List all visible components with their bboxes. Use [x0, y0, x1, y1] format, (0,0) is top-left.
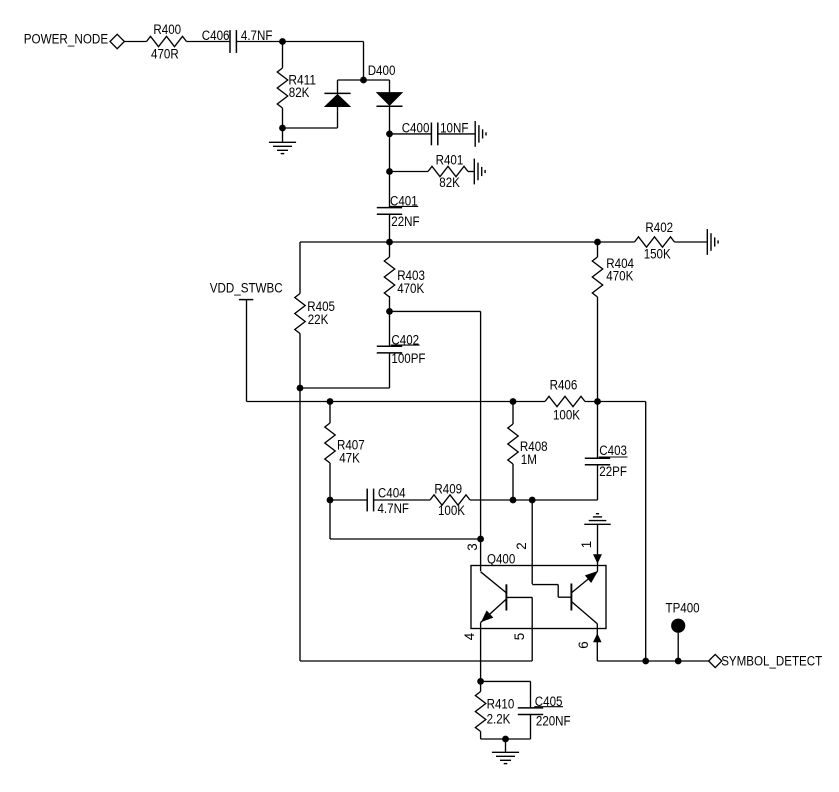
svg-text:R406: R406	[550, 378, 578, 393]
wire junction to R410	[480, 681, 482, 691]
transistor Q400 right base bar	[570, 584, 572, 611]
arrow into pin1	[594, 555, 602, 564]
svg-text:POWER_NODE: POWER_NODE	[24, 32, 109, 47]
svg-text:R401: R401	[436, 153, 464, 168]
svg-text:6: 6	[576, 641, 591, 648]
net connector SYMBOL_DETECT	[709, 654, 722, 667]
wire VDD_STWBC down to bus	[246, 300, 248, 402]
capacitor C405 220NF	[518, 694, 571, 729]
ground right of C400	[475, 121, 486, 147]
junction detect / bus corner	[642, 658, 649, 665]
wire bottom link	[481, 738, 531, 740]
junction mid rail / C401	[386, 239, 393, 246]
resistor R400 470R	[147, 22, 187, 61]
svg-text:3: 3	[465, 543, 480, 550]
resistor R410 2.2K	[475, 692, 514, 732]
wire bottom horizontal to pin5	[300, 660, 532, 662]
wire R410 to bottom	[480, 732, 482, 740]
svg-text:22K: 22K	[308, 312, 329, 327]
wire C406 to corner above D400	[236, 41, 363, 43]
ground above Q400 pin1	[584, 514, 610, 525]
junction detect / TP400	[675, 658, 682, 665]
wire C401 to mid rail	[389, 214, 391, 242]
capacitor C400 10NF	[402, 120, 469, 145]
wire rail to R403	[389, 242, 391, 257]
wire junction to C405	[481, 680, 531, 682]
wire R408 to line	[512, 464, 514, 500]
wire up to C403 bottom plate	[597, 465, 599, 500]
resistor R404 470K	[592, 256, 634, 297]
wire C400 to ground	[438, 133, 475, 135]
junction mid rail / R404 / R402	[594, 239, 601, 246]
wire ground to pin1	[597, 524, 599, 571]
wire R407 to C404 line	[329, 463, 331, 500]
svg-text:R402: R402	[645, 220, 673, 235]
junction bottom ground tap	[502, 736, 509, 743]
junction top rail / R411	[279, 38, 286, 45]
junction pin4 / R410 / C405	[477, 678, 484, 685]
wire R400 to C406	[187, 41, 231, 43]
transistor Q400 box	[471, 566, 606, 629]
resistor R405 22K	[295, 294, 335, 334]
wire D400 node to right diode	[364, 79, 390, 81]
transistor Q400 left base link to pin5	[506, 596, 532, 598]
wire C404 to R409	[374, 499, 430, 501]
junction R401 tap	[386, 168, 393, 175]
wire pin6 down to detect line	[596, 629, 598, 662]
capacitor C402 100PF	[377, 333, 426, 366]
svg-text:C402: C402	[391, 333, 419, 348]
resistor R411 82K	[277, 68, 316, 108]
svg-text:C403: C403	[599, 443, 627, 458]
svg-text:470K: 470K	[606, 269, 633, 284]
wire to R401	[390, 171, 429, 173]
junction R403 bottom	[386, 308, 393, 315]
wire D400 cathode down to C401	[389, 106, 391, 207]
capacitor C403 22PF	[585, 443, 628, 479]
wire bus left section	[247, 401, 546, 403]
wire junction to ground	[282, 128, 284, 142]
junction R407 / C404	[327, 497, 334, 504]
svg-text:Q400: Q400	[487, 552, 515, 567]
wire down to C405	[530, 681, 532, 708]
wire down to left diode cathode	[337, 80, 339, 93]
wire junction down to C402	[389, 311, 391, 346]
wire R401 to ground	[468, 171, 474, 173]
wire R411 to ground junction	[282, 108, 284, 128]
transistor Q400 left base bar	[505, 584, 507, 610]
resistor R409 100K	[430, 482, 470, 518]
svg-text:82K: 82K	[289, 85, 310, 100]
wire rail to R411	[282, 42, 284, 69]
wire POWER_NODE to R400	[124, 41, 146, 43]
wire detect line	[597, 660, 708, 662]
svg-text:470K: 470K	[397, 281, 424, 296]
power VDD_STWBC bar	[239, 299, 253, 301]
svg-text:C404: C404	[378, 485, 406, 500]
wire D400 node to left diode	[338, 79, 364, 81]
wire bus to R407	[329, 402, 331, 424]
wire junction to D400 anode	[283, 127, 338, 129]
resistor R401 82K	[428, 153, 468, 191]
wire collector to pin6	[596, 624, 598, 629]
wire R403 to junction	[389, 296, 391, 311]
svg-text:SYMBOL_DETECT: SYMBOL_DETECT	[721, 654, 822, 669]
svg-text:150K: 150K	[644, 247, 671, 262]
wire pin2 down into Q400	[531, 500, 533, 584]
ground below R411	[269, 142, 296, 153]
transistor Q400 right emitter	[571, 571, 597, 593]
wire down to pin3 junction	[480, 311, 482, 539]
wire mid rail left drop to R405	[299, 242, 301, 294]
wire rail to R404	[597, 242, 599, 257]
junction pin2 tap	[529, 497, 536, 504]
wire to C400	[390, 133, 432, 135]
junction R408 bottom	[510, 497, 517, 504]
transistor Q400 left collector	[481, 572, 507, 593]
transistor Q400 right collector	[571, 602, 597, 624]
wire down to right diode anode	[389, 80, 391, 93]
svg-text:R409: R409	[434, 482, 462, 497]
svg-text:100K: 100K	[553, 408, 580, 423]
svg-text:4.7NF: 4.7NF	[241, 28, 273, 43]
transistor Q400 left emitter	[481, 599, 507, 623]
wire R409 to C403 bottom	[470, 499, 598, 501]
junction R405 foot	[297, 385, 304, 392]
wire bus corner down to detect line	[645, 402, 647, 662]
wire junction to C404	[330, 499, 367, 501]
svg-text:VDD_STWBC: VDD_STWBC	[210, 281, 283, 296]
wire C402 bottom to R405 foot	[300, 387, 390, 389]
junction R411 bottom	[279, 125, 286, 132]
arrow out of pin6	[594, 634, 602, 642]
svg-text:2: 2	[514, 542, 529, 549]
svg-text:5: 5	[512, 633, 527, 640]
svg-text:47K: 47K	[339, 450, 360, 465]
wire C402 to corner	[389, 353, 391, 388]
resistor R406 100K	[545, 378, 585, 423]
wire pin3 into Q400	[480, 539, 482, 571]
junction pin3	[477, 536, 484, 543]
diode D400 right (cathode down)	[377, 93, 403, 107]
resistor R407 47K	[325, 423, 365, 465]
wire C405 to bottom	[530, 715, 532, 740]
resistor R408 1M	[508, 424, 548, 467]
svg-text:TP400: TP400	[666, 601, 700, 616]
junction bus / R408	[510, 398, 517, 405]
svg-text:4: 4	[462, 632, 477, 640]
net connector POWER_NODE	[110, 34, 124, 48]
wire bus right section	[585, 401, 646, 403]
wire R402 to ground	[675, 241, 708, 243]
svg-text:22NF: 22NF	[391, 214, 419, 229]
svg-text:22PF: 22PF	[599, 464, 627, 479]
svg-text:R410: R410	[487, 697, 515, 712]
svg-text:C400: C400	[402, 120, 430, 135]
wire R404 to bus	[597, 297, 599, 402]
wire emitter to pin4	[480, 623, 482, 629]
svg-text:C406: C406	[202, 28, 230, 43]
resistor R403 470K	[384, 257, 425, 297]
svg-text:10NF: 10NF	[440, 120, 468, 135]
junction C400 tap	[386, 131, 393, 138]
node D400 common	[360, 77, 367, 84]
svg-text:1: 1	[579, 541, 594, 548]
transistor Q400 right base path	[532, 585, 571, 598]
svg-text:4.7NF: 4.7NF	[378, 501, 410, 516]
svg-text:100K: 100K	[438, 503, 465, 518]
diode D400 left (anode down)	[324, 93, 350, 106]
wire R405 down long	[299, 334, 301, 662]
junction bus / R404 / C403	[594, 398, 601, 405]
wire to R402	[598, 241, 635, 243]
wire to bottom ground	[505, 739, 507, 752]
wire up to D400 left diode	[337, 107, 339, 129]
ground right of R401	[474, 159, 485, 185]
wire mid rail	[300, 241, 598, 243]
svg-text:C401: C401	[390, 194, 418, 209]
wire bus down to C403	[597, 402, 599, 459]
wire R407 bottom to pin3 line	[329, 500, 331, 539]
svg-text:R400: R400	[153, 22, 181, 37]
svg-text:220NF: 220NF	[536, 714, 571, 729]
svg-text:2.2K: 2.2K	[487, 712, 511, 727]
wire pin3 horizontal from R407 branch	[330, 538, 481, 540]
capacitor C404 4.7NF	[367, 485, 409, 516]
wire pin5 up into Q400	[531, 597, 533, 661]
wire bus to R408	[512, 402, 514, 425]
capacitor C406 4.7NF	[202, 28, 273, 53]
ground right of R402	[707, 229, 718, 255]
svg-text:82K: 82K	[439, 175, 460, 190]
testpoint TP400 pad	[671, 619, 685, 633]
junction bus / R407	[327, 398, 334, 405]
svg-text:C405: C405	[535, 694, 563, 709]
capacitor C401 22NF	[377, 194, 420, 230]
svg-text:1M: 1M	[521, 452, 537, 467]
resistor R402 150K	[635, 220, 675, 262]
svg-text:470R: 470R	[151, 46, 179, 61]
svg-text:D400: D400	[368, 63, 396, 78]
wire TP400 stem	[677, 633, 679, 661]
wire corner down to D400 node	[363, 42, 365, 81]
wire pin4 down	[480, 629, 482, 682]
ground below R410 C405	[492, 752, 519, 763]
wire junction right toward Q400 pin3	[390, 310, 481, 312]
svg-text:100PF: 100PF	[391, 351, 425, 366]
